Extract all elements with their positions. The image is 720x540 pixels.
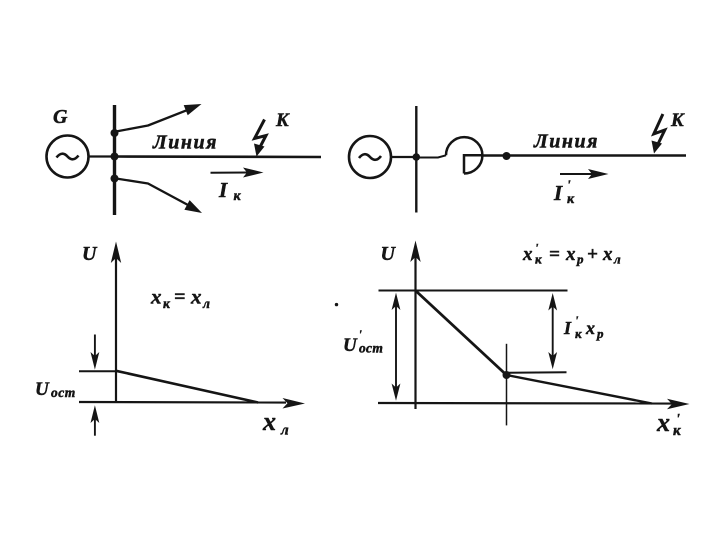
- svg-text:x: x: [565, 244, 576, 265]
- tick line at Uост level: [79, 370, 117, 372]
- lightning fault symbol K right: [652, 114, 665, 154]
- node dot upper on left bus: [111, 129, 119, 137]
- svg-text:x: x: [602, 244, 613, 265]
- svg-text:U: U: [343, 335, 358, 356]
- equation xк = xл: [150, 285, 210, 312]
- svg-text:л: л: [280, 423, 289, 439]
- label x'к axis: [656, 408, 681, 439]
- dimension arrow upper (down) Uост: [91, 335, 100, 370]
- svg-text:I: I: [553, 181, 563, 205]
- svg-text:ост: ост: [359, 341, 383, 356]
- label Uост: [35, 379, 76, 400]
- svg-text:U: U: [35, 379, 50, 400]
- top reference line at U level: [379, 290, 568, 292]
- svg-text:K: K: [275, 110, 290, 131]
- node dot middle on left bus: [111, 153, 119, 161]
- gentle voltage line (along line): [507, 375, 653, 404]
- svg-text:л: л: [613, 252, 621, 267]
- svg-text:к: к: [575, 326, 582, 341]
- x axis (horizontal) left graph: [79, 398, 305, 409]
- generator G left circle: [47, 136, 89, 178]
- svg-text:к: к: [234, 189, 242, 204]
- U axis (vertical) left graph: [111, 242, 121, 404]
- svg-text:Линия: Линия: [152, 132, 218, 154]
- svg-text:л: л: [202, 296, 210, 311]
- svg-text:+: +: [587, 244, 598, 265]
- lightning fault symbol K left: [254, 120, 266, 157]
- node dot after reactor: [503, 152, 511, 160]
- svg-text:I: I: [218, 178, 228, 202]
- sine symbol inside right generator: [359, 154, 381, 160]
- sine symbol inside generator G: [57, 154, 79, 160]
- voltage profile line left graph: [116, 371, 258, 403]
- svg-text:ост: ост: [51, 385, 76, 400]
- node dot lower on left bus: [111, 175, 119, 183]
- bus bar left: [113, 105, 116, 215]
- upper feeder arrow from left bus: [116, 104, 202, 132]
- svg-text:р: р: [576, 252, 584, 267]
- svg-text:=: =: [174, 286, 185, 308]
- svg-text:к: к: [567, 192, 575, 207]
- node dot on right bus: [413, 153, 421, 161]
- wire right generator to bus: [391, 156, 416, 158]
- svg-text:=: =: [549, 244, 560, 265]
- svg-text:Линия: Линия: [533, 131, 599, 153]
- stray speck: [335, 303, 338, 306]
- svg-text:к: к: [163, 296, 171, 311]
- svg-text:I: I: [563, 318, 572, 338]
- label xл axis: [262, 407, 289, 439]
- x axis (horizontal) right graph: [378, 399, 690, 409]
- label Iк: [218, 178, 242, 204]
- svg-text:x: x: [585, 318, 595, 338]
- label U'ост: [343, 327, 383, 356]
- dimension arrow lower (up) Uост: [91, 405, 100, 435]
- label I'к xр: [563, 313, 604, 341]
- bus bar right: [415, 106, 417, 213]
- svg-text:р: р: [596, 326, 604, 341]
- vertical marker line through breakpoint: [506, 344, 508, 426]
- svg-text:K: K: [670, 110, 685, 131]
- breakpoint dot: [503, 371, 511, 379]
- svg-text:': ': [567, 177, 571, 192]
- svg-text:G: G: [53, 106, 68, 128]
- horizontal line from breakpoint: [507, 371, 567, 374]
- wire generator to bus: [89, 155, 115, 157]
- generator right circle: [349, 136, 391, 178]
- line (Линия) wire right circuit: [482, 154, 686, 156]
- label I'к: [553, 177, 575, 207]
- svg-text:U: U: [381, 243, 397, 265]
- wire bus to reactor: [416, 155, 446, 157]
- current arrow I'к right: [560, 169, 609, 179]
- svg-text:x: x: [522, 244, 533, 265]
- svg-text:U: U: [82, 243, 98, 265]
- lower feeder arrow from left bus: [116, 179, 202, 214]
- svg-text:x: x: [656, 408, 670, 437]
- svg-text:к: к: [673, 423, 681, 439]
- dimension double arrow I'к xр: [548, 293, 557, 369]
- svg-text:к: к: [535, 252, 542, 267]
- current arrow Iк left: [211, 168, 264, 178]
- equation x'к = xр + xл: [522, 241, 621, 267]
- svg-text:x: x: [262, 407, 276, 436]
- dimension double arrow U'ост: [392, 293, 401, 401]
- U axis (vertical) right graph: [410, 241, 420, 410]
- line (Линия) wire left circuit: [115, 155, 322, 158]
- reactor LR (3/4 circle with radius leads): [446, 137, 482, 173]
- steep voltage drop line (across reactor): [417, 292, 508, 376]
- svg-text:x: x: [150, 285, 162, 309]
- svg-text:x: x: [190, 285, 202, 309]
